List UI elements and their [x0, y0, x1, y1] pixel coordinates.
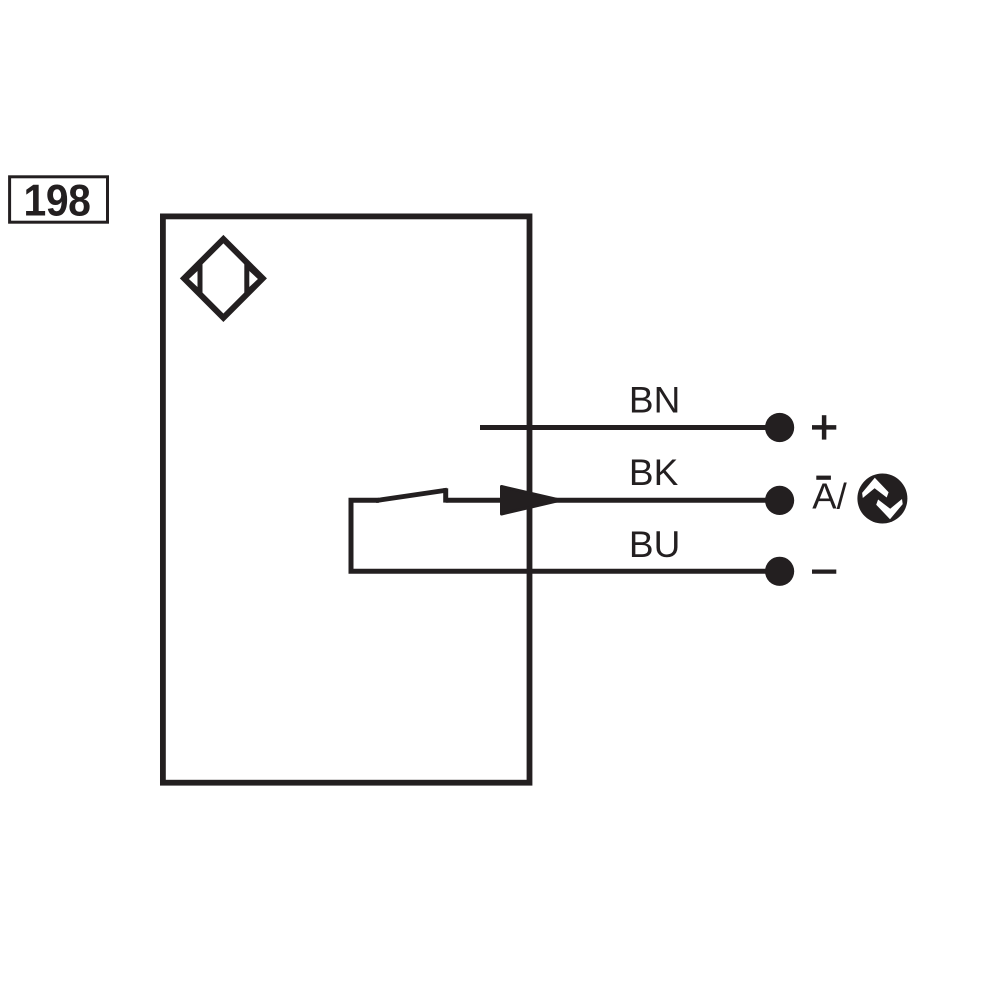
svg-text:A/: A/	[812, 476, 847, 517]
svg-text:198: 198	[24, 176, 91, 226]
svg-text:BU: BU	[629, 524, 680, 565]
svg-text:BN: BN	[629, 379, 680, 420]
svg-text:BK: BK	[629, 452, 679, 493]
